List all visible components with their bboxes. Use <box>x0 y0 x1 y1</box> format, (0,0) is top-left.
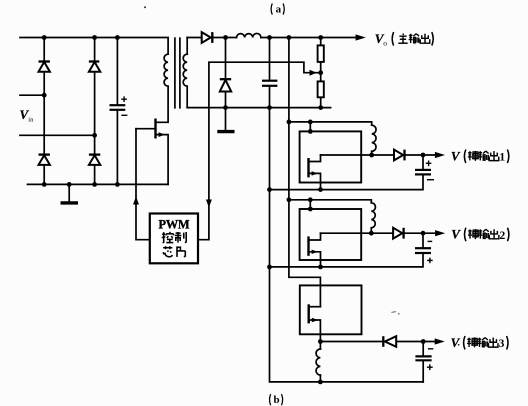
svg-text:in: in <box>28 117 34 124</box>
svg-text:o: o <box>383 39 387 48</box>
svg-text:V: V <box>451 335 461 350</box>
svg-text:b: b <box>274 394 280 406</box>
svg-text:a: a <box>276 3 282 15</box>
svg-text:1: 1 <box>499 152 505 164</box>
svg-text:2: 2 <box>500 230 506 242</box>
svg-text:PWM: PWM <box>158 218 190 232</box>
svg-text:V: V <box>451 148 461 163</box>
svg-text:3: 3 <box>499 338 505 350</box>
svg-text:V: V <box>451 227 461 242</box>
